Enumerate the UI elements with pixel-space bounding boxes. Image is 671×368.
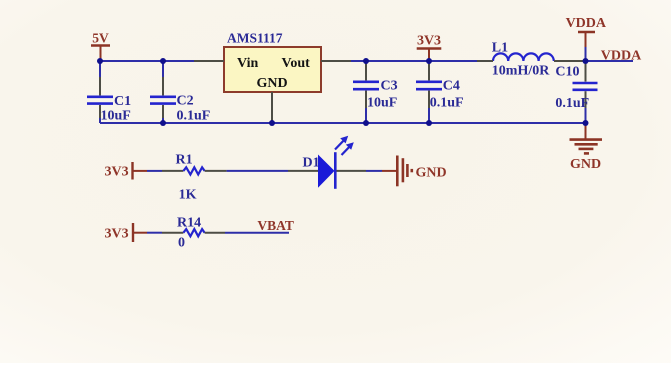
node bottom rail junction U1 GND (269, 120, 275, 126)
svg-text:0: 0 (178, 236, 185, 251)
regulator U1 AMS1117 (224, 30, 321, 92)
resistor R1 (162, 153, 227, 203)
node top rail junction 5V/C1 (97, 58, 103, 64)
node bottom rail junction C2 (160, 120, 166, 126)
wire VDDA stem (585, 47, 587, 61)
svg-text:3V3: 3V3 (105, 227, 129, 242)
node top rail junction C3 (363, 58, 369, 64)
node bottom rail junction C10/GND (583, 120, 589, 126)
svg-text:GND: GND (416, 166, 447, 181)
svg-text:VBAT: VBAT (257, 218, 294, 233)
pin Vin (194, 60, 224, 62)
svg-text:GND: GND (570, 157, 601, 172)
power port 5V (91, 31, 110, 62)
svg-text:3V3: 3V3 (105, 165, 129, 180)
svg-text:GND: GND (257, 76, 288, 91)
wire top rail left (100, 60, 194, 62)
node bottom rail junction C4 (426, 120, 432, 126)
pin L1 left (477, 60, 493, 62)
capacitor C3 (353, 61, 398, 123)
inductor L1 (492, 41, 554, 79)
wire D1 to GND port (366, 170, 382, 172)
wire 3V3 to R14 (147, 232, 162, 234)
resistor R14 (162, 216, 225, 251)
svg-text:5V: 5V (92, 31, 109, 46)
svg-text:C2: C2 (177, 94, 194, 109)
pin Vout (321, 60, 351, 62)
svg-text:1K: 1K (179, 188, 197, 203)
svg-text:C1: C1 (114, 94, 131, 109)
svg-text:10mH/0R: 10mH/0R (492, 64, 550, 79)
ground GND middle port (382, 156, 447, 187)
node VDDA junction (583, 58, 589, 64)
wire R1 to D1 (227, 170, 288, 172)
svg-text:10uF: 10uF (101, 109, 131, 124)
power port 3V3 top (417, 34, 442, 62)
svg-text:D1: D1 (303, 155, 320, 170)
svg-text:10uF: 10uF (367, 96, 397, 111)
pin GND of U1 (271, 92, 273, 123)
svg-text:Vin: Vin (237, 56, 258, 71)
node top rail junction C2 (160, 58, 166, 64)
wire R14 to VBAT (225, 232, 289, 234)
svg-text:AMS1117: AMS1117 (227, 30, 283, 45)
svg-text:R14: R14 (177, 216, 201, 231)
capacitor C10 (555, 61, 597, 123)
ground GND right (570, 124, 603, 172)
capacitor C1 (87, 61, 131, 124)
svg-text:0.1uF: 0.1uF (555, 96, 589, 111)
port 3V3 bottom (105, 223, 148, 242)
pin L1 right (554, 60, 586, 62)
svg-text:VDDA: VDDA (566, 16, 607, 31)
power port VDDA top (566, 16, 607, 47)
svg-text:0.1uF: 0.1uF (430, 96, 464, 111)
svg-text:C4: C4 (443, 78, 460, 93)
node bottom rail junction C3 (363, 120, 369, 126)
svg-text:3V3: 3V3 (417, 34, 441, 49)
wire bottom rail (100, 122, 586, 124)
LED D1 (288, 136, 366, 189)
wire 3V3 to R1 (147, 170, 162, 172)
svg-text:C10: C10 (555, 65, 579, 80)
port 3V3 middle (105, 162, 148, 180)
capacitor C4 (416, 61, 464, 123)
svg-text:C3: C3 (381, 78, 398, 93)
wire top rail right (351, 60, 477, 62)
capacitor C2 (150, 61, 210, 124)
wire VDDA right (586, 60, 634, 62)
svg-text:R1: R1 (176, 153, 193, 168)
svg-text:Vout: Vout (282, 56, 311, 71)
node top rail junction 3V3/C4 (426, 58, 432, 64)
svg-text:0.1uF: 0.1uF (177, 109, 211, 124)
